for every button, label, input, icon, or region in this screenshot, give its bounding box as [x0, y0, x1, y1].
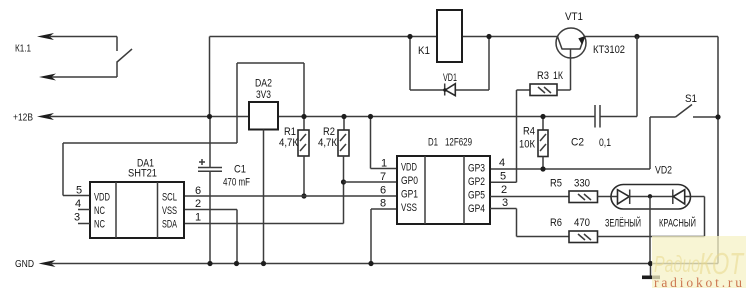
svg-text:3: 3 — [74, 212, 80, 224]
node GND DA1 VSS — [234, 261, 239, 266]
wire D1 VSS to ground — [371, 209, 397, 264]
svg-text:C1: C1 — [234, 164, 246, 176]
svg-text:radiokot.ru: radiokot.ru — [654, 275, 742, 290]
wire emitter down to C2 — [600, 37, 637, 117]
svg-text:4: 4 — [499, 157, 505, 169]
svg-text:4,7К: 4,7К — [279, 137, 299, 149]
svg-text:C2: C2 — [571, 137, 584, 149]
svg-text:VD2: VD2 — [655, 165, 672, 177]
diode VD1 — [443, 84, 455, 96]
node junction at 410,36 — [407, 34, 412, 39]
wire SDA line — [184, 223, 344, 225]
capacitor C2 — [595, 105, 600, 128]
resistor R2 — [338, 117, 349, 224]
resistor R3 — [530, 84, 571, 96]
DA1 pin numbers — [74, 185, 201, 224]
svg-text:VDD: VDD — [94, 192, 110, 204]
svg-text:1К: 1К — [553, 70, 563, 82]
svg-text:2: 2 — [501, 184, 507, 196]
svg-text:GP2: GP2 — [468, 176, 485, 188]
watermark background block — [652, 236, 746, 288]
svg-text:NC: NC — [94, 205, 105, 217]
node R1 bottom on SCL line — [301, 193, 306, 198]
node junction at 489,36 — [486, 34, 491, 39]
wire GP5 to R5 — [490, 196, 569, 198]
svg-text:SHT21: SHT21 — [128, 168, 157, 180]
relay contact K1.1 bottom wire — [39, 63, 117, 81]
node R1 top — [301, 114, 306, 119]
wire through LED package — [611, 196, 691, 198]
voltage regulator DA2 — [249, 102, 278, 264]
svg-text:4: 4 — [75, 198, 81, 210]
GND rail — [39, 260, 719, 267]
svg-text:КРАСНЫЙ: КРАСНЫЙ — [659, 217, 696, 230]
svg-text:R3: R3 — [537, 70, 549, 82]
svg-text:5: 5 — [500, 171, 506, 183]
node R2 top — [341, 114, 346, 119]
svg-text:R4: R4 — [523, 126, 535, 138]
wire 3V3 feed to DA1 — [63, 63, 304, 196]
IC DA1 SHT21 box — [90, 182, 184, 238]
+12V rail — [37, 113, 595, 120]
node GND LED — [648, 261, 653, 266]
svg-text:GP1: GP1 — [401, 189, 418, 201]
wire VD1 left leg — [409, 37, 411, 91]
node R2 on GP0 line — [341, 179, 346, 184]
resistor R4 — [538, 117, 548, 170]
node R4 top — [540, 114, 545, 119]
node R4 bottom — [540, 166, 545, 171]
node emitter junction — [634, 34, 639, 39]
switch S1 — [650, 105, 718, 118]
svg-text:8: 8 — [380, 198, 386, 210]
svg-text:SCL: SCL — [162, 192, 177, 204]
IC D1 12F629 box — [397, 156, 490, 224]
transistor VT1 — [556, 28, 586, 90]
red LED — [673, 190, 685, 205]
svg-text:КТ3102: КТ3102 — [593, 44, 625, 56]
svg-text:1: 1 — [381, 158, 387, 170]
svg-text:VSS: VSS — [162, 205, 177, 217]
wire LED center to ground — [649, 197, 651, 264]
DA1 pin 4 stub — [78, 209, 90, 211]
svg-text:330: 330 — [574, 178, 590, 190]
svg-text:10К: 10К — [519, 139, 535, 151]
svg-text:1: 1 — [195, 212, 201, 224]
svg-text:VDD: VDD — [401, 162, 417, 174]
svg-text:K1: K1 — [418, 45, 430, 57]
svg-text:2: 2 — [195, 198, 201, 210]
svg-text:GND: GND — [15, 258, 34, 270]
node rail x210 — [207, 114, 212, 119]
wire emitter to right rail — [585, 37, 719, 264]
svg-text:К1.1: К1.1 — [15, 44, 31, 55]
svg-text:VSS: VSS — [401, 202, 417, 214]
wire GP4 to R6 — [490, 209, 569, 237]
svg-text:4,7К: 4,7К — [318, 137, 338, 149]
relay contact K1.1 blade — [117, 49, 133, 63]
wire D1 VDD feed — [371, 117, 398, 169]
wire VSS drop of DA1 — [184, 210, 237, 264]
resistor R1 — [298, 117, 309, 197]
svg-text:Радио: Радио — [654, 251, 700, 277]
wire GP0 stub — [344, 181, 398, 183]
wire SCL to GP1 line — [184, 195, 397, 197]
node GND C1 — [207, 261, 212, 266]
svg-text:VD1: VD1 — [443, 72, 457, 84]
svg-text:6: 6 — [380, 185, 386, 197]
resistor R5 — [569, 191, 611, 203]
svg-text:GP4: GP4 — [468, 203, 485, 215]
svg-text:NC: NC — [94, 219, 105, 231]
svg-text:6: 6 — [195, 185, 201, 197]
relay contact K1.1 top wire — [37, 33, 117, 51]
svg-text:3V3: 3V3 — [256, 89, 271, 101]
svg-text:DA2: DA2 — [255, 78, 272, 90]
svg-text:ЗЕЛЁНЫЙ: ЗЕЛЁНЫЙ — [605, 217, 641, 230]
node D1 VDD on rail — [368, 114, 373, 119]
svg-text:D1: D1 — [428, 137, 438, 149]
LED pair VD2 package — [611, 185, 691, 210]
node LED center junction — [648, 194, 652, 198]
green LED — [618, 190, 630, 205]
svg-text:12F629: 12F629 — [445, 137, 472, 149]
svg-text:GP0: GP0 — [401, 175, 418, 187]
svg-text:7: 7 — [380, 171, 386, 183]
capacitor C1 — [198, 117, 222, 264]
node GND D1 VSS — [368, 261, 373, 266]
relay coil K1 — [437, 10, 462, 62]
wire VD1 row — [410, 89, 489, 91]
svg-text:GP5: GP5 — [468, 190, 485, 202]
D1 pin numbers — [380, 157, 508, 210]
svg-text:470: 470 — [574, 217, 590, 229]
watermark РадиоКОТ text — [654, 246, 744, 281]
wire S1 left drop to GP3 line — [490, 117, 650, 169]
svg-text:GP3: GP3 — [468, 163, 485, 175]
svg-text:+12В: +12В — [13, 112, 33, 124]
svg-text:5: 5 — [76, 185, 82, 197]
resistor R6 — [569, 197, 705, 243]
svg-text:0,1: 0,1 — [599, 137, 611, 149]
svg-text:3: 3 — [502, 197, 508, 209]
svg-text:S1: S1 — [685, 93, 697, 105]
DA1 pin 3 stub — [78, 223, 90, 225]
svg-text:SDA: SDA — [162, 219, 177, 231]
ground symbol — [642, 264, 660, 280]
svg-text:R5: R5 — [550, 178, 562, 190]
DA1 pin labels — [94, 192, 177, 231]
wire riser to relay rail — [210, 37, 558, 117]
D1 pin labels right — [468, 163, 485, 216]
svg-text:VT1: VT1 — [565, 11, 583, 23]
node GND DA2 — [261, 261, 266, 266]
wire VD1 right leg — [488, 37, 490, 91]
D1 pin labels left — [401, 162, 418, 215]
wire GP2 to R3 riser — [490, 90, 530, 182]
node S1 right junction — [715, 114, 720, 119]
svg-text:R6: R6 — [550, 217, 562, 229]
svg-text:470 mF: 470 mF — [223, 177, 250, 189]
